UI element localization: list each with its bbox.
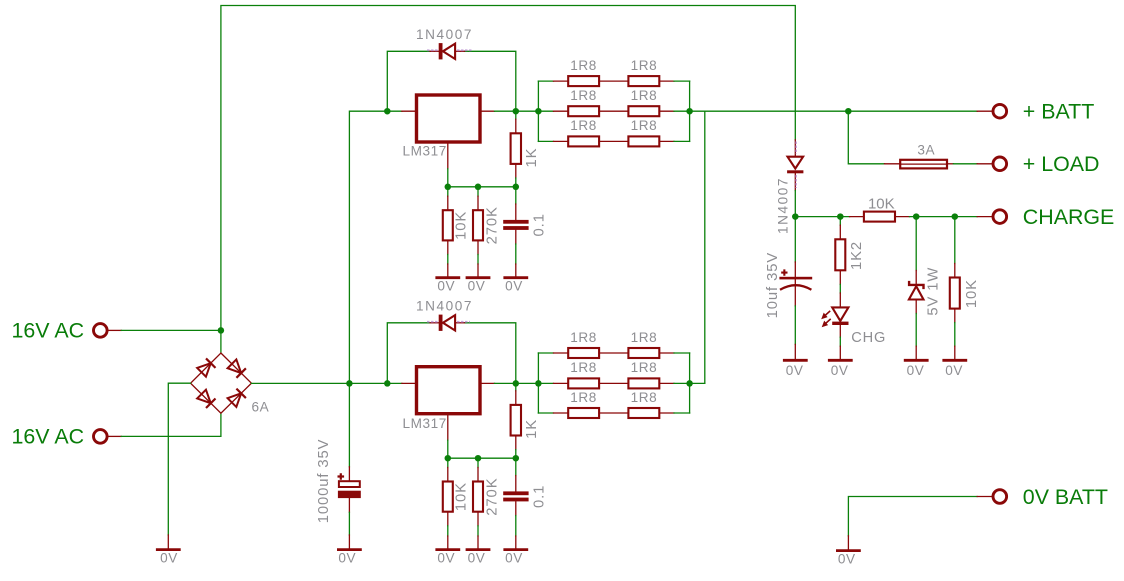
svg-text:10uf 35V: 10uf 35V: [765, 252, 781, 318]
ground stub (0V BATT): [847, 536, 849, 550]
wire 0.1 cap drop (bottom): [515, 458, 517, 475]
resistor 1R8 row2 left (top array): [554, 106, 629, 116]
wire 10K pulldown drop: [954, 217, 956, 264]
svg-text:0.1: 0.1: [531, 213, 547, 236]
wire array1 row2 left: [538, 110, 553, 112]
wire reg1 output: [495, 110, 539, 112]
ground stub (zener): [915, 346, 917, 359]
svg-text:0V: 0V: [786, 363, 804, 378]
pin stub LM317 adj (bottom): [447, 414, 449, 441]
pin stub +LOAD: [977, 163, 993, 165]
svg-text:16V AC: 16V AC: [12, 318, 85, 342]
wire array1 row2 right: [674, 110, 690, 112]
wire zener to ground: [915, 314, 917, 347]
wire array1 left bus: [537, 81, 539, 141]
ground stub (bridge): [167, 535, 169, 549]
wire reg2 diode loop right: [465, 323, 516, 384]
wire AC1 vertical (top rail riser): [221, 6, 795, 354]
resistor 1R8 row3 left (bottom array): [554, 408, 629, 418]
ground stub (1000uf): [348, 535, 350, 549]
wire reg1 protection diode loop: [387, 51, 430, 111]
pin circle 16V AC bottom: [94, 430, 108, 444]
pin circle +LOAD: [993, 157, 1007, 171]
wire 1000uf cap down: [348, 383, 350, 466]
ground (bridge) 0V: [156, 548, 181, 551]
wire reg2 output: [495, 382, 539, 384]
ground stub 270K (top): [477, 264, 479, 276]
pin stub reg1 input: [402, 110, 417, 112]
svg-text:16V AC: 16V AC: [12, 424, 85, 448]
ground (LED) 0V: [828, 359, 853, 362]
node AC1 junction: [218, 327, 225, 334]
diode D 1N4007 (top regulator): [430, 43, 465, 59]
svg-text:0V: 0V: [468, 279, 486, 294]
wire array2 row1 right: [674, 352, 690, 354]
wire 10K drop (bottom): [447, 458, 449, 467]
wire charge row: [795, 216, 849, 218]
svg-text:1K: 1K: [524, 419, 540, 439]
resistor 1R8 row3 right (bottom array): [628, 408, 674, 418]
node junction adj row mid (bottom): [475, 455, 482, 462]
resistor 1R8 row2 right (bottom array): [628, 378, 674, 388]
svg-text:0V: 0V: [907, 363, 925, 378]
node junction array2 out: [686, 380, 693, 387]
svg-text:0V: 0V: [437, 279, 455, 294]
net name fragments (magenta, bottom diode): [427, 321, 470, 323]
node junction array1 out: [686, 108, 693, 115]
wire bridge plus rail (main DC rail): [251, 382, 402, 384]
net name fragments (magenta, charge diode): [795, 142, 797, 189]
wire fuse to +LOAD pin: [953, 163, 977, 165]
ground 10K (bottom) 0V: [435, 548, 460, 551]
wire array2 row1 left: [538, 352, 553, 354]
resistor 270K (bottom): [473, 468, 483, 526]
resistor 1R8 row1 right (bottom array): [628, 348, 674, 358]
pin circle 16V AC top: [94, 324, 108, 338]
svg-text:1N4007: 1N4007: [416, 27, 473, 42]
wire +BATT rail: [690, 110, 978, 112]
ground stub 0.1 (bottom): [515, 536, 517, 548]
svg-text:CHARGE: CHARGE: [1023, 205, 1115, 229]
LED CHG: [821, 293, 848, 337]
pin stub CHARGE: [977, 216, 993, 218]
wire array1 right bus: [689, 81, 691, 141]
diode D 1N4007 (bottom regulator): [430, 315, 465, 331]
node junction reg2 input: [384, 380, 391, 387]
wire reg2 protection diode loop: [387, 323, 430, 384]
ground 10K (top) 0V: [435, 276, 460, 279]
pin stub 16V AC bottom: [107, 435, 121, 437]
svg-text:0V: 0V: [437, 551, 455, 566]
svg-text:LM317: LM317: [403, 416, 447, 431]
ground stub (LED): [839, 346, 841, 359]
fuse F1 3A: [885, 160, 954, 169]
svg-text:10K: 10K: [868, 195, 895, 212]
wire 1000uf to ground: [348, 512, 350, 535]
svg-text:1000uf 35V: 1000uf 35V: [316, 439, 332, 524]
wire AC2 pin to bridge bottom: [121, 413, 221, 436]
svg-text:+ LOAD: + LOAD: [1023, 152, 1100, 176]
pin circle +BATT: [993, 104, 1007, 118]
svg-text:1R8: 1R8: [631, 88, 658, 103]
wire 0.1 to ground (bottom): [515, 516, 517, 536]
capacitor 0.1 (top): [503, 204, 528, 244]
wire 10K pulldown to ground: [954, 323, 956, 347]
wire array1 row3 left: [538, 140, 553, 142]
wire 10K to ground (top): [447, 255, 449, 265]
pin circle 0V BATT: [993, 490, 1007, 504]
ground stub 10K (bottom): [447, 536, 449, 548]
diode D 1N4007 (charge, vertical): [787, 140, 803, 191]
wire array2 left bus: [537, 353, 539, 413]
wire AC1 pin to junction: [121, 329, 221, 331]
wire adj to divider row (bottom): [447, 440, 449, 458]
resistor 1R8 row1 left (top array): [554, 76, 629, 86]
svg-text:0V: 0V: [505, 551, 523, 566]
resistor 1R8 row2 right (top array): [628, 106, 674, 116]
svg-text:0V: 0V: [505, 279, 523, 294]
pin stub LM317 adj (top): [447, 142, 449, 169]
resistor 1R8 row3 right (top array): [628, 136, 674, 146]
node junction reg1 out / array1: [535, 108, 542, 115]
wire reg1 diode loop right: [465, 51, 516, 111]
node junction reg1 out / 1K: [513, 108, 520, 115]
svg-text:1R8: 1R8: [631, 360, 658, 375]
ground stub 270K (bottom): [477, 536, 479, 548]
capacitor 0.1 (bottom): [503, 476, 528, 516]
wire 0V BATT run: [848, 497, 977, 536]
svg-text:+ BATT: + BATT: [1023, 100, 1095, 124]
ground stub (10uf): [794, 344, 796, 359]
wire bridge minus to ground: [168, 383, 190, 535]
wire array2 right bus: [689, 353, 691, 413]
resistor 1K2: [835, 225, 845, 284]
wire array2 riser to +BATT rail: [704, 111, 706, 383]
resistor 270K (top): [473, 196, 483, 254]
ground (1000uf) 0V: [337, 548, 362, 551]
resistor 10K (charge series): [850, 212, 910, 222]
resistor 1K (bottom): [511, 391, 521, 450]
svg-text:1N4007: 1N4007: [416, 298, 473, 313]
ground (10uf) 0V: [783, 359, 808, 362]
svg-text:0V: 0V: [338, 551, 356, 566]
ground 0.1 (bottom) 0V: [503, 548, 528, 551]
ground 270K (top) 0V: [466, 276, 491, 279]
svg-text:10K: 10K: [453, 482, 469, 511]
resistor 1R8 row2 left (bottom array): [554, 378, 629, 388]
svg-text:1R8: 1R8: [570, 390, 597, 405]
pin circle CHARGE: [993, 210, 1007, 224]
svg-text:1R8: 1R8: [631, 390, 658, 405]
wire array2 row2 left: [538, 382, 553, 384]
wire DC rail riser to reg1: [349, 111, 402, 383]
pin stub reg1 output: [480, 110, 495, 112]
svg-text:10K: 10K: [453, 211, 469, 240]
svg-text:0V: 0V: [468, 551, 486, 566]
node junction +LOAD tap: [845, 108, 852, 115]
wire array2 row3 left: [538, 412, 553, 414]
wire 270K to ground (top): [477, 255, 479, 265]
node junction adj row mid (top): [475, 184, 482, 191]
svg-text:LM317: LM317: [403, 144, 447, 159]
wire diode to charge row: [794, 191, 796, 217]
wire array2 out to riser: [690, 382, 705, 384]
resistor 1R8 row1 left (bottom array): [554, 348, 629, 358]
wire adj to divider row (top): [447, 169, 449, 187]
node junction reg1 input: [384, 108, 391, 115]
ground (10K pulldown) 0V: [942, 359, 967, 362]
capacitor C 1000uf 35V: [338, 467, 361, 513]
wire array2 row3 right: [674, 412, 690, 414]
resistor 10K (top): [443, 196, 453, 254]
net name fragments (magenta): [427, 49, 473, 51]
pin stub 16V AC top: [107, 329, 121, 331]
capacitor C 10uf 35V: [779, 262, 812, 306]
wire 0.1 to ground (top): [515, 244, 517, 264]
svg-text:1K2: 1K2: [849, 241, 865, 270]
resistor 1K (top): [511, 119, 521, 178]
wire 10uf to ground: [794, 306, 796, 345]
node junction reg2 out / array2: [535, 380, 542, 387]
resistor 10K (pulldown): [950, 264, 960, 323]
svg-text:0V: 0V: [160, 551, 178, 566]
svg-text:6A: 6A: [252, 400, 270, 415]
ground 0.1 (top) 0V: [503, 276, 528, 279]
svg-text:1K: 1K: [524, 148, 540, 168]
pin stub +BATT: [977, 110, 993, 112]
svg-text:CHG: CHG: [851, 330, 886, 346]
resistor 1R8 row1 right (top array): [628, 76, 674, 86]
wire zener drop: [915, 217, 917, 271]
node junction charge/zener: [913, 213, 920, 220]
svg-text:1R8: 1R8: [631, 330, 658, 345]
wire array1 row1 left: [538, 80, 553, 82]
zener diode 5V 1W: [909, 271, 924, 314]
wire 0.1 cap drop (top): [515, 187, 517, 204]
wire 270K to ground (bottom): [477, 526, 479, 536]
wire 1K2 drop: [839, 217, 841, 226]
node junction adj row left (top): [445, 184, 452, 191]
wire array2 row2 right: [674, 382, 690, 384]
svg-text:1R8: 1R8: [570, 58, 597, 73]
ground stub 0.1 (top): [515, 264, 517, 276]
svg-text:1R8: 1R8: [631, 58, 658, 73]
wire 10K to ground (bottom): [447, 526, 449, 536]
wire array1 row1 right: [674, 80, 690, 82]
svg-text:1R8: 1R8: [570, 88, 597, 103]
resistor 10K (bottom): [443, 468, 453, 526]
svg-text:0V: 0V: [831, 363, 849, 378]
node junction charge/10uf: [792, 213, 799, 220]
wire 10uf drop: [794, 217, 796, 262]
node junction 1000uf tap: [346, 380, 353, 387]
pin stub 0V BATT: [977, 496, 993, 498]
wire 1K2 to LED: [839, 284, 841, 293]
svg-text:270K: 270K: [485, 478, 501, 516]
svg-text:10K: 10K: [964, 279, 980, 308]
wire 1K bottom to row (bottom): [515, 450, 517, 459]
ground 270K (bottom) 0V: [466, 548, 491, 551]
resistor 1R8 row3 left (top array): [554, 136, 629, 146]
wire 1K top connection (bottom): [515, 383, 517, 390]
wire array1 row3 right: [674, 140, 690, 142]
svg-text:0.1: 0.1: [531, 485, 547, 508]
ground (zener) 0V: [904, 359, 929, 362]
wire divider row (top): [448, 186, 516, 188]
svg-text:0V: 0V: [945, 363, 963, 378]
node junction adj row left (bottom): [445, 455, 452, 462]
node junction reg2 out / 1K: [513, 380, 520, 387]
wire +LOAD branch: [848, 111, 884, 164]
wire 270K drop (bottom): [477, 458, 479, 467]
svg-text:3A: 3A: [917, 143, 935, 158]
op-amp U2 LM317 (bottom regulator box): [417, 367, 481, 414]
bridge rectifier B1 6A: [191, 353, 252, 413]
svg-text:5V 1W: 5V 1W: [925, 267, 941, 316]
node junction adj row right (bottom): [513, 455, 520, 462]
wire 270K drop (top): [477, 187, 479, 196]
wire divider row (bottom): [448, 457, 516, 459]
node junction charge/10K pulldown: [952, 213, 959, 220]
svg-text:1R8: 1R8: [570, 330, 597, 345]
svg-text:1R8: 1R8: [570, 118, 597, 133]
ground (0V BATT): [836, 549, 861, 552]
ground stub (10K pulldown): [954, 346, 956, 359]
ground stub 10K (top): [447, 264, 449, 276]
op-amp U1 LM317 (top regulator box): [417, 95, 481, 142]
wire 1K bottom to row (top): [515, 178, 517, 187]
svg-text:0V BATT: 0V BATT: [1023, 485, 1108, 509]
svg-text:1R8: 1R8: [570, 360, 597, 375]
wire charge row right: [910, 216, 978, 218]
node junction charge/1K2: [837, 213, 844, 220]
wire 1K top connection: [515, 111, 517, 119]
pin stub reg2 input: [402, 382, 417, 384]
svg-text:1R8: 1R8: [631, 118, 658, 133]
node junction adj row right (top): [513, 184, 520, 191]
svg-text:0V: 0V: [838, 552, 856, 567]
svg-text:270K: 270K: [485, 206, 501, 244]
wire 10K drop (top): [447, 187, 449, 196]
svg-text:1N4007: 1N4007: [776, 177, 791, 234]
pin stub reg2 output: [480, 382, 495, 384]
wire LED to ground: [839, 337, 841, 346]
